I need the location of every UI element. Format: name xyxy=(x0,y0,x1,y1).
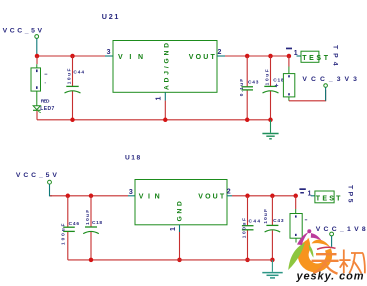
svg-text:C18: C18 xyxy=(92,220,102,226)
node out junction 1 xyxy=(245,54,250,59)
logo leaf sliver (green) xyxy=(309,244,314,257)
capacitor C43b branch wire xyxy=(271,196,273,226)
logo crescent gap (white wedge) xyxy=(307,236,335,254)
node junction B xyxy=(70,54,75,59)
pin 1 ADJ/GND xyxy=(164,92,166,100)
svg-text:3: 3 xyxy=(129,189,133,196)
wire resistor branch xyxy=(36,56,38,64)
svg-text:yesky. com: yesky. com xyxy=(296,271,364,283)
node junction C17 bottom xyxy=(89,258,94,263)
capacitor C43 branch wire xyxy=(246,56,248,87)
wire pin1 to bottom rail xyxy=(179,232,181,260)
svg-text:VIN: VIN xyxy=(118,54,143,61)
resistor R17 branch wire xyxy=(295,196,297,209)
pin 1 GND (U18) xyxy=(179,225,181,232)
power port stem xyxy=(36,38,38,56)
svg-text:1: 1 xyxy=(155,97,162,101)
svg-text:1: 1 xyxy=(170,227,177,231)
wire resistor bottom to VCC_3V3 xyxy=(288,97,290,101)
power port VCC_5V circle xyxy=(35,35,39,39)
resistor R17 xyxy=(290,214,307,239)
power port VCC_5V circle (bottom) xyxy=(48,180,52,184)
svg-text:GND: GND xyxy=(176,201,183,221)
junction C18 bottom xyxy=(268,118,273,123)
svg-text:TEST: TEST xyxy=(302,55,329,62)
node junction C17 xyxy=(89,194,94,199)
junction C43b bottom xyxy=(270,258,275,263)
pin 3 VIN (U21) xyxy=(105,55,113,57)
capacitor C17 branch wire xyxy=(90,196,92,227)
svg-text:C44: C44 xyxy=(73,69,84,75)
junction pin1 rail xyxy=(163,118,168,123)
wire bottom rail (bottom circuit) xyxy=(68,259,273,261)
junction pin1 bottom xyxy=(177,258,182,263)
LED LED7 xyxy=(33,106,41,113)
power port VCC_1V8 circle (over logo) xyxy=(330,232,334,236)
logo crescent (orange) xyxy=(298,238,332,272)
node out junction 2 (U18) xyxy=(270,194,275,199)
resistor R16 branch wire xyxy=(288,56,290,67)
wire output rail xyxy=(225,55,289,57)
ground (top circuit) xyxy=(262,120,278,139)
svg-text:LED7: LED7 xyxy=(40,106,54,112)
logo character 极 (orange-red) xyxy=(339,250,365,274)
svg-text:2: 2 xyxy=(227,188,231,195)
svg-text:C46: C46 xyxy=(69,221,80,227)
svg-text:10uF: 10uF xyxy=(265,69,271,85)
svg-text:C43: C43 xyxy=(273,218,284,224)
logo arc over tian (crimson) xyxy=(317,247,336,249)
svg-text:C44: C44 xyxy=(249,218,261,224)
capacitor C18 branch wire xyxy=(270,56,272,86)
junction C44 bottom xyxy=(70,118,75,123)
svg-text:0.1uF: 0.1uF xyxy=(239,79,245,97)
capacitor C44 branch wire xyxy=(72,56,74,86)
svg-text:VIN: VIN xyxy=(139,194,160,201)
svg-text:VCC_1V8: VCC_1V8 xyxy=(316,226,366,233)
node out junction 3 xyxy=(287,54,292,59)
node out junction 3 (U18) xyxy=(293,194,298,199)
test point marker bar (top) xyxy=(286,48,292,50)
svg-text:10uF: 10uF xyxy=(67,68,73,84)
wire pin1 to rail xyxy=(164,101,166,120)
test point marker bar (bottom) xyxy=(299,188,305,190)
svg-text:U18: U18 xyxy=(125,154,141,161)
regulator box U18 xyxy=(135,180,227,225)
junction C43 bottom xyxy=(245,118,250,123)
wire input rail (bottom circuit) xyxy=(50,195,128,197)
node out junction 2 xyxy=(268,54,273,59)
svg-text:TP5: TP5 xyxy=(347,185,354,203)
svg-text:TP4: TP4 xyxy=(332,45,339,66)
wire output rail (U18) xyxy=(232,195,296,197)
logo figure (magenta) xyxy=(297,229,321,245)
svg-text:C43: C43 xyxy=(248,79,259,85)
node junction A xyxy=(35,54,40,59)
test point TEST box (TP5) xyxy=(315,191,334,203)
svg-text:C18: C18 xyxy=(273,77,284,83)
node out junction 1 (U18) xyxy=(245,194,250,199)
svg-text:U21: U21 xyxy=(102,12,119,21)
capacitor C17 (10uF polarized) xyxy=(83,227,99,234)
capacitor C44b branch wire xyxy=(247,196,249,226)
svg-text:RED: RED xyxy=(41,99,50,105)
power port VCC_3V3 circle xyxy=(324,84,328,88)
svg-text:TEST: TEST xyxy=(316,195,341,202)
logo leaf (green) xyxy=(288,243,305,271)
resistor R? (LED series) xyxy=(31,68,47,91)
wire LED to rail xyxy=(36,111,38,120)
capacitor C18 (10uF polarized) xyxy=(263,86,279,93)
test point TEST box (TP4) xyxy=(301,51,319,62)
ground (bottom circuit) xyxy=(262,260,282,278)
capacitor C46 branch wire xyxy=(67,196,69,227)
logo left horn spike (orange) xyxy=(306,238,311,250)
svg-text:3: 3 xyxy=(107,49,111,56)
resistor R16 xyxy=(275,74,295,97)
power port stem (bottom) xyxy=(50,184,53,196)
wire resistor to LED xyxy=(36,92,38,106)
svg-text:10uF: 10uF xyxy=(85,210,91,225)
svg-text:2: 2 xyxy=(218,49,222,56)
junction C44b bottom xyxy=(245,258,250,263)
svg-text:10uF: 10uF xyxy=(263,209,269,224)
node junction C46 xyxy=(66,194,71,199)
capacitor C43 (0.1uF) xyxy=(241,87,253,90)
logo top-right horn (orange) xyxy=(312,240,331,248)
capacitor C44 (100uF output) xyxy=(242,226,254,230)
capacitor C43 (10uF polarized output) xyxy=(265,225,281,232)
capacitor C46 (100uF) xyxy=(63,227,75,231)
power port stem VCC_1V8 xyxy=(331,236,333,247)
logo character 天 (orange-red) xyxy=(312,254,339,274)
svg-text:VCC_3V3: VCC_3V3 xyxy=(302,76,357,83)
wire resistor bottom stem xyxy=(295,238,297,242)
capacitor C44 (10uF polarized) xyxy=(65,86,81,93)
wire bottom rail (top circuit) xyxy=(37,119,271,121)
wire input rail xyxy=(37,55,105,57)
regulator U21 box xyxy=(113,41,217,93)
